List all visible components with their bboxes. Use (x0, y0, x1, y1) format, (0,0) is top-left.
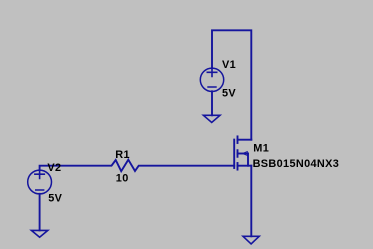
svg-text:R1: R1 (115, 149, 130, 161)
svg-text:5V: 5V (48, 193, 62, 205)
svg-text:V1: V1 (222, 59, 236, 71)
svg-text:10: 10 (116, 172, 129, 184)
svg-text:BSB015N04NX3: BSB015N04NX3 (253, 158, 340, 170)
svg-text:M1: M1 (253, 142, 269, 154)
svg-text:V2: V2 (47, 162, 61, 174)
svg-text:5V: 5V (222, 87, 236, 99)
